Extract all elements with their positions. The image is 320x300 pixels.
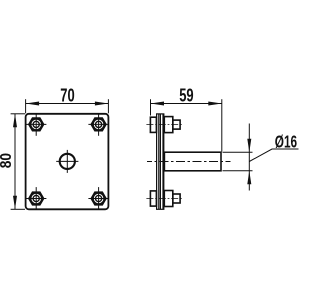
bottom bolt (side view): nut bbox=[164, 191, 173, 207]
dimension D16: extension lines from shaft edges bbox=[223, 124, 253, 191]
dimension 80: top arrowhead bbox=[13, 114, 17, 128]
bolt B4 (bottom-right) bbox=[88, 187, 108, 210]
dimension D16: vertical dimension line bbox=[248, 124, 250, 191]
bottom bolt (side view): axis line bbox=[146, 198, 183, 200]
dimension 70: left arrowhead bbox=[26, 102, 39, 106]
shaft (side view, D16) bbox=[164, 152, 221, 171]
side view: plate top cap bbox=[156, 113, 164, 115]
dimension 80: bottom arrowhead bbox=[13, 196, 17, 210]
bottom bolt (side view): thread stub bbox=[173, 194, 180, 203]
svg-text:Ø16: Ø16 bbox=[275, 132, 297, 152]
shaft centerline (dash-dot) bbox=[147, 161, 231, 163]
dimension 80: extension lines bbox=[11, 114, 25, 210]
dimension 59: extension lines bbox=[151, 99, 222, 151]
svg-text:80: 80 bbox=[0, 153, 15, 168]
bolt B2 (top-right) bbox=[88, 113, 108, 136]
side view: plate stack (vertical lines) bbox=[156, 114, 164, 209]
dimension 70: dimension line bbox=[26, 103, 109, 105]
dimension D16: leader line bbox=[249, 149, 298, 162]
dimension 59: right arrowhead bbox=[208, 102, 222, 106]
dimension 70: right arrowhead bbox=[95, 102, 109, 106]
dimension 70: extension lines bbox=[26, 99, 109, 113]
dimension 80: dimension line bbox=[14, 114, 16, 210]
top bolt (side view): thread stub bbox=[173, 120, 180, 129]
dimension 59: left arrowhead bbox=[151, 102, 165, 106]
bolt B3 (bottom-left) bbox=[26, 187, 46, 210]
bolt B1 (top-left) bbox=[26, 113, 46, 136]
top bolt (side view): axis line bbox=[146, 124, 183, 126]
svg-text:70: 70 bbox=[60, 86, 74, 106]
center hole bbox=[56, 150, 78, 173]
dimension D16: upper arrowhead (pointing down) bbox=[247, 139, 251, 153]
top bolt (side view): nut bbox=[164, 117, 173, 133]
bottom bolt (side view): head bbox=[150, 191, 156, 206]
side view: plate bottom cap bbox=[156, 208, 164, 210]
dimension 59: dimension line bbox=[151, 103, 222, 105]
front view: mounting plate outline bbox=[26, 114, 109, 210]
svg-text:59: 59 bbox=[179, 86, 193, 106]
dimension D16: lower arrowhead (pointing up) bbox=[247, 171, 251, 185]
top bolt (side view): head bbox=[150, 117, 156, 132]
